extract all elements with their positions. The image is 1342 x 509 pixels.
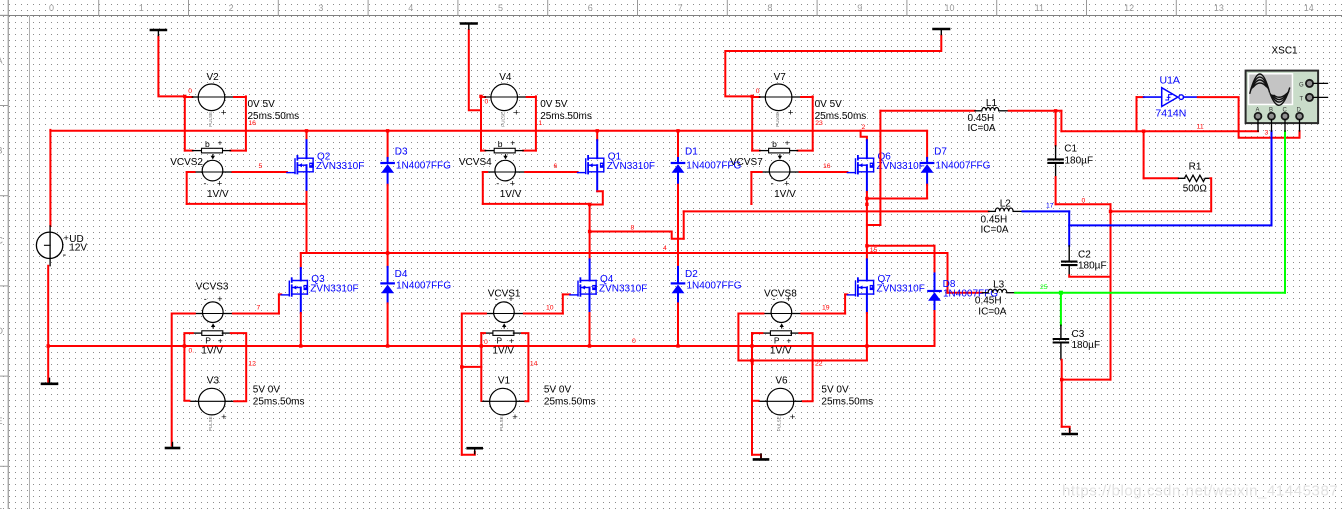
wire: UD- down to ground [47,266,49,382]
diode D8 (1N4007FFG) [928,273,941,311]
svg-text:7414N: 7414N [1155,108,1186,120]
inductor L3 0.45H [982,289,1015,293]
V7 left terminal red stub [752,96,759,98]
wire: gate riser top [279,293,281,295]
diode D2 (1N4007FFG) [672,267,685,304]
ground V4 [461,24,477,30]
wire: Q2 source red down to mid-bus [306,192,308,253]
dc source UD lead black top [49,226,51,232]
wire: VCVS2 output to Q2 gate [233,171,287,173]
svg-text:A: A [0,55,3,65]
VCVS4 left lead [487,171,495,173]
wire: L1 output [1009,110,1062,112]
svg-text:ZVN3310F: ZVN3310F [316,161,364,172]
sense box right lead [515,150,524,152]
VCVS4 right lead [516,171,526,173]
wire: net0 vertical right [1110,204,1112,379]
svg-text:b: b [772,139,777,149]
wire: V2 left down to sense box [184,96,186,150]
controlled-source sense input of VCVS7 [769,137,790,153]
transistor Q1 (ZVN3310F NMOS) [578,156,605,174]
svg-text:-: - [496,179,499,189]
svg-text:P: P [774,336,780,346]
svg-text:3: 3 [318,3,323,13]
wire: V1 hook horizontal [462,366,482,368]
sense box right lead [789,150,798,152]
wire: loop horizontal to Q2 source [187,203,307,205]
wire: V3 right to box right [231,333,246,401]
wire: Q3 source blue lead [300,288,302,314]
svg-text:11: 11 [1197,124,1204,131]
V1 left lead [481,400,489,402]
wire: V6 left stub [752,400,759,402]
svg-text:5V 0V: 5V 0V [253,385,281,396]
V3 left lead [190,400,198,402]
svg-text:+: + [510,137,515,147]
wire: V7 ground wire [725,36,941,97]
svg-text:XSC1: XSC1 [1272,46,1299,57]
wire: bus corner to D7 top [926,131,928,158]
wire: net17 to scope B blue [1069,224,1271,226]
wire: net0 bottom horizontal [1062,379,1111,381]
capacitor C1 180uF [1048,146,1062,177]
top ruler [0,0,1342,16]
svg-text:0: 0 [188,88,192,95]
wire: V1 box left connector [481,332,485,334]
scope input D [1296,108,1303,132]
wire: V6 box left connector [752,332,762,334]
junction at V2 left [183,95,186,98]
svg-text:0: 0 [484,339,488,346]
VCVS7 left lead [762,171,770,173]
svg-text:1: 1 [538,120,542,127]
svg-text:4: 4 [408,3,413,13]
svg-text:b: b [498,139,503,149]
svg-text:IC=0A: IC=0A [978,306,1006,317]
svg-text:11: 11 [1035,3,1044,13]
controlled-source sense input of VCVS2 [202,137,223,153]
svg-text:25ms.50ms: 25ms.50ms [821,397,873,408]
wire: node8 vertical [589,205,591,260]
svg-text:9: 9 [857,3,862,13]
sense box right lead [791,332,800,334]
wire: Q1 source jog [590,191,603,204]
svg-text:VCVS4: VCVS4 [459,157,492,168]
diode D4 (1N4007FFG) [381,267,394,304]
svg-text:V6: V6 [775,376,788,387]
diode D1 (1N4007FFG) [672,158,685,185]
svg-text:6: 6 [554,163,558,170]
wire: VCVS7 output to Q6 gate [800,171,848,173]
ground net 0 [1063,429,1077,435]
Q6 drain blue lead [866,140,868,158]
svg-text:14: 14 [530,361,538,368]
sense box right lead [222,150,231,152]
wire: VCVS8 left hook [738,314,867,361]
svg-text:1V/V: 1V/V [774,189,796,200]
svg-text:8: 8 [767,3,772,13]
Q1 drain blue lead [596,140,598,158]
junction V6 ground vertical / ground bus [750,344,753,347]
wire: to sense box left [481,150,485,152]
ground UD negative [42,378,57,384]
wire: Q6 source red vertical down [866,192,868,259]
junction V3 left / ground bus [183,344,186,347]
wire: to sense box left [752,150,759,152]
svg-text:1V/V: 1V/V [207,189,229,200]
wire: Q1 source blue lead [596,165,598,191]
wire: VCVS7 left to loop [751,171,761,173]
wire: loop vertical down [750,172,752,204]
wire: UD+ vertical to bus [49,130,51,226]
svg-text:C3: C3 [1072,329,1085,340]
pulse voltage source V4 [491,84,520,127]
svg-text:+: + [217,294,222,304]
svg-text:180µF: 180µF [1078,261,1107,272]
wire: Q4 source to ground bus [589,313,591,346]
svg-text:+: + [788,108,794,119]
wire: VCVS1 output toward gate [524,313,563,315]
svg-text:4: 4 [663,245,667,252]
svg-text:-: - [495,294,498,304]
svg-text:22: 22 [815,361,823,368]
svg-text:https://blog.csdn.net/weixin_4: https://blog.csdn.net/weixin_41445387 [1062,483,1338,500]
V2 left terminal red stub [185,96,193,98]
vcvs dependent source VCVS7 [769,155,790,189]
svg-text:ZVN3310F: ZVN3310F [599,283,647,294]
wire: D2 bottom to ground bus [677,303,679,346]
wire: mid bus corner down to L3 [947,253,949,293]
wire: VCVS8 output toward gate [801,313,845,315]
junction C3 column [1060,378,1063,381]
V7 right terminal lead [792,96,801,98]
wire: D3 bottom to mid bus [387,185,389,253]
svg-text:-: - [204,179,207,189]
svg-text:15: 15 [870,247,878,254]
VCVS2 right lead [223,171,233,173]
svg-text:0.45H: 0.45H [975,296,1002,307]
junction green / C3 [1059,291,1063,295]
transistor Q6 (ZVN3310F NMOS) [847,156,874,174]
svg-text:12V: 12V [69,243,87,254]
junction bus/Q2 drain [305,129,308,132]
svg-text:+: + [509,336,514,346]
wire: VCVS3 left to ground [172,314,195,446]
wire: R1 right down [1111,178,1212,211]
wire: loop horizontal to Q1 source [483,203,590,205]
capacitor C2 180uF [1062,246,1076,276]
wire: C2 bottom to net0 [1069,275,1110,276]
svg-text:+: + [64,233,69,243]
wire: to sense box right [231,150,246,152]
junction D4 / ground bus [386,344,389,347]
wire: C3 bottom red down [1061,360,1063,427]
transistor Q7 (ZVN3310F NMOS) [847,278,874,296]
wire: L3 output green [1015,292,1285,294]
wire: V4 right terminal to right vertical [527,96,536,98]
VCVS1 left lead [486,313,494,315]
svg-text:V7: V7 [774,72,787,83]
svg-text:1V/V: 1V/V [492,346,514,357]
wire: Q2 source blue lead [306,165,308,192]
junction bus/D1 [676,129,679,132]
Q2 drain blue lead [306,140,308,158]
svg-text:-: - [772,294,775,304]
svg-text:+: + [217,179,222,189]
svg-text:+: + [221,108,227,119]
wire: V7 left down to sense box [751,96,753,150]
svg-text:IC=0A: IC=0A [981,225,1009,236]
svg-text:VCVS3: VCVS3 [196,282,229,293]
sense box left lead [193,332,202,334]
wire: VCVS4 output to Q1 gate [525,171,577,173]
wire: C3 top green [1060,293,1062,326]
svg-text:1N4007FFG: 1N4007FFG [935,160,990,171]
inductor L2 0.45H [989,208,1023,211]
wire: V6 ground jog [752,455,761,457]
vcvs dependent source VCVS8 [771,294,792,328]
wire: scope B vertical blue [1271,131,1273,225]
svg-text:C2: C2 [1078,250,1091,261]
scope input A [1255,108,1262,132]
diode D7 (1N4007FFG) [921,158,934,185]
wire: ground bus net 0 horizontal [48,345,934,347]
svg-text:ZVN3310F: ZVN3310F [310,283,358,294]
pulse voltage source V3 [199,388,228,431]
svg-text:180µF: 180µF [1065,155,1094,166]
svg-text:+: + [508,294,513,304]
controlled-source sense input of VCVS1 [493,331,514,346]
wire: D8 bottom to ground bus corner [934,311,936,346]
junction Q6 source / VCVS7 loop [865,203,868,206]
svg-text:2: 2 [862,124,866,131]
dc source UD lead black bottom [49,258,51,265]
svg-text:P: P [496,336,502,346]
junction at V7 left [751,95,754,98]
svg-text:VCVS8: VCVS8 [764,289,797,300]
svg-text:T: T [1300,97,1304,103]
wire: mid bus to D4 [387,253,389,267]
svg-text:13: 13 [1214,3,1224,13]
oscilloscope XSC1 [1246,71,1319,124]
wire: V2 right terminal to right vertical [234,96,246,98]
wire: C2 top blue vertical [1068,211,1070,245]
svg-text:+: + [514,108,520,119]
svg-text:6: 6 [588,3,593,13]
wire: Q3 source to ground bus [300,313,302,346]
VCVS1 right lead [514,313,524,315]
transistor Q3 (ZVN3310F NMOS) [281,278,308,296]
V1 right lead [516,400,525,402]
svg-text:P: P [205,336,211,346]
junction net11 / R1 branch [1142,130,1145,133]
svg-text:0: 0 [49,3,54,13]
V6 left lead [759,400,767,402]
svg-text:PULSE: PULSE [501,112,506,127]
svg-text:D3: D3 [395,147,408,158]
svg-text:0: 0 [1082,198,1086,205]
wire: right vertical down to sense box [245,96,247,150]
pulse voltage source V2 [198,84,227,127]
svg-text:PULSE: PULSE [775,112,780,127]
svg-text:D: D [0,326,4,336]
svg-text:C1: C1 [1064,144,1077,155]
wire: +12V top bus from UD+ across top [50,130,927,132]
wire: V2 ground wire [158,37,184,97]
wire: VCVS4 left to loop [483,171,487,173]
wire: L1 feed vertical [879,111,881,225]
wire: loop vertical down [482,172,484,204]
svg-text:25: 25 [1040,284,1048,291]
svg-text:25ms.50ms: 25ms.50ms [544,397,596,408]
wire: gate riser [844,294,846,313]
svg-text:17: 17 [1046,203,1054,210]
sheet left border [29,16,31,509]
wire: V1 cell inner vertical [480,333,482,401]
svg-text:10: 10 [944,3,954,13]
wire: to sense box left [185,150,193,152]
wire: L3 feed horizontal [948,292,983,294]
V2 right terminal lead [225,96,234,98]
svg-text:V4: V4 [499,72,512,83]
wire: gate riser top [563,293,570,295]
svg-text:-: - [771,179,774,189]
svg-text:+: + [512,412,518,423]
junction net0 vertical [1109,210,1112,213]
capacitor C3 180uF [1054,325,1068,360]
wire: V4 ground wire [469,30,481,110]
svg-text:10: 10 [546,305,554,312]
wire: V7 right terminal to right vertical [801,96,813,98]
svg-text:-: - [204,294,207,304]
junction Q3 source / ground bus [299,344,302,347]
svg-text:D7: D7 [934,147,947,158]
svg-text:1V/V: 1V/V [770,346,792,357]
svg-text:16: 16 [248,120,256,127]
junction Q6 source column / output H1 [865,244,868,247]
wire: bus jog to Q6 drain [861,131,867,140]
inductor L1 0.45H [975,107,1009,110]
svg-text:500Ω: 500Ω [1183,184,1208,195]
svg-text:b: b [205,139,210,149]
wire: D1 bottom down through mid bus to D2 [677,185,679,267]
svg-text:PULSE: PULSE [208,416,213,431]
wire: L1 feed horizontal [880,110,975,112]
wire: C1 top [1055,111,1057,146]
wire: V6 right to box right [799,333,812,401]
wire: Q7 source down to hook [866,313,868,361]
wire: Q7 source blue lead [866,288,868,314]
controlled-source sense input of VCVS4 [494,137,515,153]
svg-text:1V/V: 1V/V [201,346,223,357]
wire: loop horizontal to Q6 source [750,203,752,205]
ground V7 [934,29,950,35]
wire: L2 feed vertical [683,211,685,238]
svg-text:1: 1 [139,3,144,13]
junction Q7 source / ground bus [865,344,868,347]
svg-text:IC=0A: IC=0A [968,123,996,134]
wire: D7 bottom down [926,185,928,199]
sense box left lead [193,150,202,152]
wire: V3 left riser to sense box [184,333,192,401]
svg-text:3: 3 [1265,130,1269,137]
sense box left lead [485,150,494,152]
junction hook on ground wire [460,365,463,368]
wire: V1 right to box right [522,333,529,401]
svg-text:0: 0 [632,338,636,345]
svg-text:+: + [218,137,223,147]
svg-text:+: + [221,412,227,423]
VCVS7 right lead [790,171,800,173]
junction node8 branch [588,230,591,233]
junction Q1 source node [588,203,591,206]
junction bus/D3 [386,129,389,132]
svg-text:+: + [784,179,789,189]
svg-text:PULSE: PULSE [208,112,213,127]
wire: U1A input left stub [1137,96,1144,98]
wire: Q4 source blue lead [589,288,591,314]
inverter U1A 7414N [1144,88,1198,107]
Q3 drain blue lead [300,268,302,281]
junction D7 / Q6 source column [865,197,868,200]
V7 left terminal lead [759,96,765,98]
svg-text:0V 5V: 0V 5V [248,99,276,110]
svg-text:16: 16 [823,163,831,170]
sense box right lead [513,332,522,334]
svg-text:E: E [0,416,3,426]
ground V6 cell [754,454,768,460]
junction L1 out / C1 [1054,109,1057,112]
svg-text:ZVN3310F: ZVN3310F [877,283,925,294]
sense box left lead [761,332,770,334]
svg-text:25ms.50ms: 25ms.50ms [540,111,592,122]
V4 left terminal red stub [481,96,485,98]
svg-text:R1: R1 [1189,161,1202,172]
pulse voltage source V7 [765,84,794,127]
wire: C1 bottom to net0 vertical [1056,203,1111,205]
VCVS8 right lead [792,313,802,315]
svg-text:0V 5V: 0V 5V [540,99,568,110]
VCVS3 right lead [223,313,233,315]
vcvs dependent source VCVS3 [203,294,224,328]
V2 left terminal lead [192,96,198,98]
svg-text:+: + [786,336,791,346]
vcvs dependent source VCVS1 [494,294,515,328]
svg-text:ZVN3310F: ZVN3310F [607,161,655,172]
junction V1 inner vertical / ground bus [480,344,483,347]
junction at V4 left [479,95,482,98]
wire: scope C vertical green [1284,131,1286,293]
VCVS3 left lead [195,313,203,315]
svg-text:G: G [1299,83,1304,89]
scope terminal G [1299,80,1328,89]
V4 left terminal lead [485,96,491,98]
junction mid bus / D3 D4 column [386,251,389,254]
svg-text:1N4007FFG: 1N4007FFG [396,281,451,292]
ground V1 cell [468,448,482,454]
wire: U1A input red [1136,97,1138,131]
sense box left lead [484,332,493,334]
svg-text:0V 5V: 0V 5V [815,99,843,110]
svg-text:V2: V2 [207,72,220,83]
wire: gate riser top [845,293,847,295]
vcvs dependent source VCVS2 [202,155,223,189]
wire: right vertical down to sense box [812,96,814,150]
left ruler [0,0,8,509]
svg-text:PULSE: PULSE [499,416,504,431]
wire: bus to Q1 drain [596,131,598,140]
scope terminal T [1300,94,1328,103]
